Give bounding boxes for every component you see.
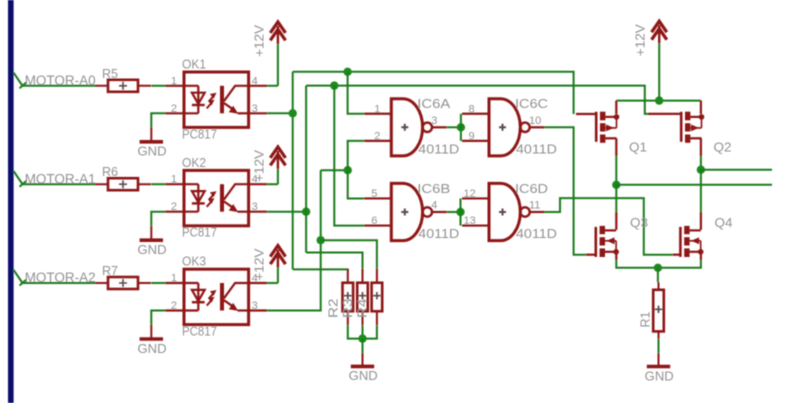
wire R5 to OK1 pin1 [151, 85, 165, 87]
wire OK1 pin2 to GND [151, 113, 165, 127]
resistor R7 [95, 282, 151, 284]
wire net MOTOR-A0 entry stub [14, 73, 23, 86]
wire net B to R3 top [306, 253, 362, 269]
svg-text:IC6C: IC6C [515, 97, 548, 111]
wire Q4 gate lead [673, 254, 681, 256]
ground GND OK1 [150, 128, 152, 142]
wire R3 join stub [362, 325, 364, 338]
junction IC6B.4 [456, 208, 464, 216]
resistor R4 [376, 269, 378, 326]
svg-text:OK2: OK2 [182, 156, 206, 170]
junction net B / IC6B pin6 [330, 81, 338, 89]
svg-text:1: 1 [171, 174, 177, 186]
wire R1 to GND [658, 339, 660, 353]
svg-text:4011D: 4011D [516, 142, 557, 156]
wire IC6D input link [460, 199, 462, 226]
svg-text:+12V: +12V [634, 23, 648, 56]
wire Q3 gate lead [586, 254, 596, 256]
svg-text:3: 3 [252, 103, 258, 115]
svg-text:12: 12 [463, 188, 475, 200]
ground GND R1 [658, 353, 660, 366]
svg-text:PC817: PC817 [182, 325, 217, 339]
svg-text:R6: R6 [102, 165, 118, 179]
svg-text:6: 6 [371, 215, 377, 227]
power +12V OK2 [270, 147, 285, 158]
junction IC6A.3 [457, 123, 465, 131]
wire node2 to Q3 drain [615, 185, 617, 212]
svg-text:R3: R3 [340, 299, 355, 319]
svg-text:MOTOR-A1: MOTOR-A1 [25, 171, 96, 186]
svg-text:R1: R1 [639, 311, 653, 327]
junction +12V rail [655, 96, 663, 104]
svg-text:3: 3 [252, 201, 258, 213]
wire Q4 source down [700, 252, 702, 260]
wire net B drop to IC6B pin6 [334, 86, 364, 226]
svg-text:PC817: PC817 [182, 127, 217, 141]
wire net MOTOR-A1 [23, 183, 96, 185]
svg-text:11: 11 [529, 200, 540, 212]
wire Q3 drain lead [615, 212, 617, 230]
wire output 1 (to motor) [701, 169, 772, 171]
svg-text:8: 8 [468, 103, 474, 115]
svg-text:1: 1 [374, 103, 380, 115]
wire R7 to OK3 pin1 [151, 282, 165, 284]
wire Q2 source down [700, 138, 702, 156]
wire Q2 drain to rail [700, 101, 702, 114]
NAND gate IC6B (4011D) [391, 183, 422, 240]
wire net MOTOR-A1 tick [20, 181, 27, 187]
wire join to GND [362, 339, 364, 353]
svg-text:13: 13 [463, 215, 475, 227]
wire IC6D.11 to Q4 gate [545, 198, 673, 255]
svg-text:IC6B: IC6B [417, 182, 450, 196]
optocoupler OK2 (PC817) [184, 170, 249, 225]
svg-text:Q3: Q3 [630, 216, 648, 230]
svg-text:4011D: 4011D [418, 142, 459, 156]
wire Q1 source down [615, 138, 617, 156]
svg-text:4: 4 [431, 200, 437, 212]
frame left border [8, 0, 14, 403]
svg-text:Q4: Q4 [715, 216, 733, 230]
svg-text:5: 5 [371, 188, 377, 200]
optocoupler OK1 (PC817) [184, 72, 249, 127]
wire net C: OK3 pin3 [267, 170, 321, 310]
resistor R1 [658, 282, 660, 339]
svg-text:+12V: +12V [252, 24, 266, 57]
svg-text:Q1: Q1 [629, 141, 647, 155]
wire join to R1 [657, 268, 659, 283]
svg-text:IC6D: IC6D [515, 182, 548, 196]
wire OK2 pin2 to GND [151, 212, 165, 226]
NAND gate IC6A (4011D) [391, 99, 422, 156]
NAND gate IC6C (4011D) [489, 99, 520, 156]
wire IC6B.4 to IC6D.12/13 [447, 211, 461, 213]
svg-text:4011D: 4011D [516, 227, 557, 241]
svg-text:+12V: +12V [252, 149, 266, 182]
svg-text:1: 1 [171, 273, 177, 285]
svg-text:OK3: OK3 [182, 255, 206, 269]
wire Q4 drain lead [700, 212, 702, 230]
NAND gate IC6D (4011D) [489, 183, 520, 240]
svg-text:R7: R7 [102, 264, 118, 278]
wire net A top run to Q1 gate [293, 72, 574, 114]
wire output 2 (to motor) [616, 184, 772, 186]
junction output node 2 [612, 181, 620, 189]
wire net B top run to Q2 gate [306, 86, 648, 114]
wire net C to IC6B pin5 [348, 170, 365, 198]
transistor Q1 (N-MOSFET) [595, 112, 598, 142]
wire net A drop to IC6A pin1 [348, 72, 365, 114]
wire IC6C input link [460, 114, 462, 141]
junction net A / IC6A pin1 [343, 68, 351, 76]
wire net MOTOR-A2 tick [20, 280, 27, 286]
svg-text:OK1: OK1 [182, 58, 206, 72]
svg-text:3: 3 [252, 300, 258, 312]
svg-text:R4: R4 [355, 299, 370, 319]
wire net A vertical [292, 72, 294, 270]
svg-text:GND: GND [138, 341, 167, 356]
transistor Q2 (N-MOSFET) [680, 112, 683, 142]
wire net MOTOR-A2 entry stub [14, 270, 23, 283]
junction net A at OK1 pin3 [289, 109, 297, 117]
wire IC6C.10 to Q3 gate [545, 127, 587, 254]
wire net A to R2 top [293, 268, 348, 271]
svg-text:GND: GND [349, 368, 378, 383]
wire Q1 source to node2 [615, 156, 617, 185]
svg-text:9: 9 [468, 130, 474, 142]
svg-text:+12V: +12V [252, 248, 266, 281]
wire IC6A.3 to IC6C.8/9 [447, 126, 461, 128]
junction output node 1 [697, 166, 705, 174]
wire net MOTOR-A0 [23, 85, 96, 87]
wire net MOTOR-A0 tick [20, 82, 27, 88]
svg-text:3: 3 [431, 115, 437, 127]
svg-text:2: 2 [171, 103, 177, 115]
wire Q2 gate lead [648, 113, 681, 115]
wire Q1 drain to rail [615, 101, 617, 114]
wire Q3 source down [615, 252, 617, 260]
wire OK1 pin4 to +12V [267, 85, 278, 87]
wire +12V rail [616, 100, 701, 102]
svg-text:PC817: PC817 [182, 226, 217, 240]
power +12V OK3 [270, 246, 285, 257]
wire Q1 gate lead [576, 113, 596, 115]
optocoupler OK3 (PC817) [184, 269, 249, 324]
svg-text:R2: R2 [325, 299, 340, 319]
junction net C / R4 branch [317, 236, 325, 244]
svg-text:2: 2 [374, 130, 380, 142]
resistor R5 [95, 85, 151, 87]
svg-text:IC6A: IC6A [417, 97, 451, 111]
resistor R3 [362, 269, 364, 326]
wire net C to IC6A pin2 [348, 141, 365, 170]
svg-text:1: 1 [171, 75, 177, 87]
wire Q2 source to node1 [700, 156, 702, 170]
svg-text:4011D: 4011D [418, 227, 459, 241]
svg-text:MOTOR-A2: MOTOR-A2 [25, 270, 96, 285]
resistor R2 [347, 269, 349, 326]
svg-text:Q2: Q2 [714, 141, 732, 155]
wire resistor join [348, 325, 377, 338]
svg-text:10: 10 [529, 115, 541, 127]
junction net C [344, 166, 352, 174]
wire net B vertical [305, 86, 307, 253]
svg-text:GND: GND [138, 144, 167, 159]
junction net B at OK2 pin3 [302, 208, 310, 216]
wire OK3 pin4 to +12V [267, 282, 278, 284]
wire net B: OK2 pin3 [267, 211, 306, 213]
transistor Q3 (N-MOSFET) [594, 227, 597, 257]
ground GND OK2 [150, 226, 152, 240]
wire source join [616, 260, 701, 268]
svg-text:2: 2 [171, 300, 177, 312]
ground GND OK3 [150, 325, 152, 339]
junction source join [654, 264, 662, 272]
transistor Q4 (N-MOSFET) [679, 227, 682, 257]
wire net C to R4 top [321, 240, 377, 269]
wire net C cross link [321, 169, 348, 171]
wire net A: OK1 pin3 [267, 112, 293, 114]
power +12V rail [652, 21, 667, 32]
junction resistor GND join [358, 334, 366, 342]
svg-text:MOTOR-A0: MOTOR-A0 [25, 73, 96, 88]
ground GND R2R3R4 [362, 353, 364, 366]
wire R6 to OK2 pin1 [151, 183, 165, 185]
wire OK3 pin2 to GND [151, 311, 165, 325]
svg-text:4: 4 [252, 75, 258, 87]
wire OK2 pin4 to +12V [267, 183, 278, 185]
wire net MOTOR-A1 entry stub [14, 171, 23, 184]
svg-text:GND: GND [138, 242, 167, 257]
power +12V OK1 [270, 22, 285, 33]
resistor R6 [95, 183, 151, 185]
wire net MOTOR-A2 [23, 282, 96, 284]
svg-text:R5: R5 [102, 67, 118, 81]
svg-text:2: 2 [171, 201, 177, 213]
svg-text:GND: GND [645, 368, 674, 383]
wire node1 to Q4 drain [700, 170, 702, 212]
